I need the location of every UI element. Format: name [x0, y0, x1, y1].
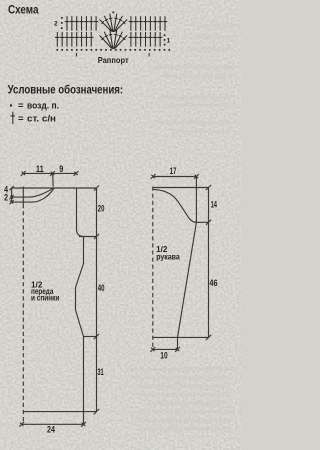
svg-text:рукава: рукава	[156, 252, 180, 261]
svg-text:31: 31	[97, 367, 103, 377]
svg-text:Условные обозначения:: Условные обозначения:	[8, 82, 124, 96]
svg-text:Схема: Схема	[8, 4, 39, 16]
svg-text:2: 2	[4, 192, 8, 202]
svg-text:46: 46	[209, 278, 217, 288]
svg-text:ст. с/н: ст. с/н	[27, 113, 56, 124]
svg-text:14: 14	[211, 200, 217, 210]
svg-text:2: 2	[54, 21, 58, 28]
svg-text:20: 20	[98, 203, 105, 213]
svg-text:возд. п.: возд. п.	[27, 101, 59, 112]
svg-text:9: 9	[59, 164, 63, 174]
svg-text:24: 24	[47, 425, 55, 435]
svg-text:11: 11	[36, 164, 44, 174]
svg-text:1: 1	[167, 38, 171, 45]
svg-text:10: 10	[160, 351, 167, 361]
svg-text:Раппорт: Раппорт	[98, 55, 129, 65]
svg-text:17: 17	[170, 166, 177, 176]
svg-text:=: =	[18, 101, 24, 112]
svg-text:и спинки: и спинки	[31, 294, 59, 303]
svg-text:40: 40	[98, 283, 105, 293]
svg-text:=: =	[18, 114, 24, 125]
